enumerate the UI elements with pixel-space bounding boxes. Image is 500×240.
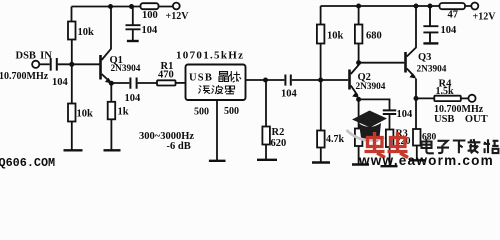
ground (under C2) bbox=[127, 40, 139, 42]
resistor 680 (Q2 collector) bbox=[358, 6, 360, 25]
wire R4 to output bbox=[461, 97, 469, 99]
ground (under R2) bbox=[257, 159, 277, 161]
svg-text:Q606.COM: Q606.COM bbox=[0, 156, 55, 170]
wire to ground bbox=[416, 146, 418, 160]
svg-text:470: 470 bbox=[158, 69, 174, 80]
ground (under 4.7k) bbox=[312, 161, 330, 163]
wire cap to R3 bbox=[389, 115, 391, 130]
svg-text:DSB IN: DSB IN bbox=[16, 51, 53, 62]
capacitor 104 (right rail bypass) bbox=[423, 6, 438, 42]
transistor Q1 2N3904 bbox=[99, 7, 112, 84]
wire to ground bbox=[110, 119, 112, 150]
wire input bbox=[39, 63, 49, 65]
resistor R4 1.5k bbox=[434, 96, 461, 101]
wire left +12V rail bbox=[72, 6, 173, 8]
transistor Q2 2N3904 bbox=[348, 63, 359, 98]
watermark 电子下载站 bbox=[422, 139, 499, 154]
USB crystal filter box bbox=[186, 65, 246, 101]
svg-text:104: 104 bbox=[142, 25, 159, 36]
svg-text:+12V: +12V bbox=[473, 12, 497, 23]
svg-text:+12V: +12V bbox=[166, 11, 190, 22]
svg-text:1.5k: 1.5k bbox=[436, 86, 455, 97]
svg-text:10k: 10k bbox=[327, 31, 344, 42]
ground (under 1k) bbox=[104, 149, 121, 151]
svg-text:100: 100 bbox=[142, 10, 158, 21]
resistor 10k (Q2 upper bias) bbox=[317, 25, 325, 44]
node Q2 emitter bbox=[356, 97, 361, 102]
node rail-Q3 collector bbox=[414, 4, 419, 9]
terminal +12V left bbox=[173, 3, 180, 10]
svg-text:2N3904: 2N3904 bbox=[417, 64, 447, 74]
node rail-680 bbox=[356, 4, 361, 9]
wire to cap bbox=[266, 79, 285, 81]
svg-text:R2: R2 bbox=[272, 127, 285, 138]
wire emitter AC branch bbox=[359, 99, 390, 109]
wire filter output bbox=[246, 79, 266, 81]
transistor Q3 2N3904 bbox=[404, 6, 416, 79]
wire to ground bbox=[358, 146, 360, 164]
wire R1 to filter bbox=[176, 82, 186, 84]
wire base node down bbox=[71, 64, 73, 103]
resistor R1 470 bbox=[157, 80, 176, 85]
svg-text:500: 500 bbox=[194, 107, 209, 118]
svg-text:USB OUT: USB OUT bbox=[434, 114, 488, 125]
node rail-C2 bbox=[129, 4, 134, 9]
svg-text:www.eaworm.com: www.eaworm.com bbox=[358, 153, 494, 168]
wire right +12V rail bbox=[321, 5, 472, 7]
resistor 1k (Q1 emitter) bbox=[108, 102, 116, 120]
wire cap to R1 bbox=[138, 82, 157, 84]
svg-text:10k: 10k bbox=[78, 27, 95, 38]
resistor 10k (Q1 upper bias) bbox=[68, 22, 76, 40]
resistor 560 (Q2 emitter) bbox=[355, 129, 363, 147]
wire to ground bbox=[71, 122, 73, 150]
svg-text:4.7k: 4.7k bbox=[326, 134, 345, 145]
ground (under 10k) bbox=[64, 149, 83, 151]
node rail-C7 bbox=[428, 4, 433, 9]
wire filter ground lead bbox=[216, 100, 218, 160]
svg-text:104: 104 bbox=[281, 89, 298, 100]
glyph 滤波器 bbox=[199, 85, 235, 94]
svg-text:10701.5kHz: 10701.5kHz bbox=[176, 50, 244, 62]
wire 10k to base node bbox=[320, 44, 322, 81]
watermark graduation cap logo bbox=[347, 111, 388, 141]
wire 10k top stem bbox=[71, 7, 73, 22]
resistor 47 (right supply) bbox=[440, 3, 466, 9]
wire emitter to R4 bbox=[416, 97, 434, 99]
node Q1 emitter bbox=[109, 81, 114, 86]
capacitor 104 (filter-Q2 coupling) bbox=[285, 75, 290, 86]
svg-text:-6 dB: -6 dB bbox=[167, 141, 191, 152]
watermark red 虫 2 bbox=[388, 132, 409, 158]
wire 10k to base node bbox=[71, 40, 73, 65]
wire cap to Q2 base node bbox=[292, 79, 348, 81]
resistor 100 (left supply) bbox=[141, 3, 159, 9]
svg-text:620: 620 bbox=[271, 138, 287, 149]
wire emitter to coupling cap bbox=[111, 82, 129, 84]
node Q1 base bbox=[69, 62, 74, 67]
terminal +12V right bbox=[471, 3, 478, 10]
svg-text:Q3: Q3 bbox=[418, 52, 431, 63]
node Q2 base bbox=[318, 78, 323, 83]
svg-text:2N3904: 2N3904 bbox=[356, 82, 386, 92]
svg-text:104: 104 bbox=[52, 77, 69, 88]
wire emitter down bbox=[358, 99, 360, 128]
svg-text:10k: 10k bbox=[77, 109, 94, 120]
node Q2 collector bbox=[356, 60, 361, 65]
ground (under 560) bbox=[352, 163, 369, 165]
node rail-Q1 collector bbox=[108, 4, 113, 9]
resistor R2 620 bbox=[262, 127, 270, 145]
ground (under filter) bbox=[209, 160, 226, 162]
ground (under right cap) bbox=[423, 42, 438, 44]
wire down to R2 bbox=[265, 80, 267, 127]
ground (under R3) bbox=[381, 165, 398, 167]
watermark red 虫 1 bbox=[365, 132, 386, 158]
glyph 晶体 bbox=[219, 71, 241, 82]
wire cap to Q1 base bbox=[58, 63, 100, 65]
wire base node down to 4.7k bbox=[320, 80, 322, 131]
svg-text:104: 104 bbox=[397, 109, 414, 120]
resistor 10k (Q1 lower bias) bbox=[68, 104, 76, 122]
ground (under 680 right) bbox=[409, 159, 426, 161]
resistor R3 220 bbox=[386, 130, 394, 148]
capacitor C2 104 (left rail bypass) bbox=[126, 7, 141, 41]
svg-text:USB: USB bbox=[189, 73, 213, 84]
wire Q3 emitter down bbox=[415, 79, 417, 130]
wire to ground bbox=[389, 147, 391, 166]
resistor 680 (Q3 emitter) bbox=[413, 129, 421, 146]
svg-text:2N3904: 2N3904 bbox=[111, 64, 141, 74]
wire to ground bbox=[265, 145, 267, 160]
node Q3 emitter bbox=[414, 96, 419, 101]
wire emitter down bbox=[110, 83, 112, 102]
wire right rail start down through 10k bbox=[320, 6, 322, 25]
resistor 4.7k (Q2 lower bias) bbox=[317, 131, 325, 148]
svg-text:680: 680 bbox=[366, 31, 382, 42]
wire Q2 collector to Q3 base bbox=[359, 62, 405, 64]
capacitor 104 (Q2 emitter AC) bbox=[383, 110, 396, 114]
wire to ground bbox=[320, 148, 322, 162]
svg-text:104: 104 bbox=[125, 93, 142, 104]
svg-text:47: 47 bbox=[448, 10, 459, 21]
wire 680 to Q2 collector node bbox=[358, 44, 360, 63]
capacitor 104 input coupling bbox=[51, 58, 57, 71]
terminal DSB IN bbox=[32, 61, 39, 68]
svg-text:1k: 1k bbox=[118, 107, 129, 118]
svg-text:104: 104 bbox=[441, 25, 458, 36]
svg-text:500: 500 bbox=[224, 106, 239, 117]
capacitor 104 (Q1 output coupling) bbox=[130, 78, 136, 89]
terminal USB OUT bbox=[468, 95, 475, 102]
node filter out bbox=[263, 78, 268, 83]
svg-text:10.700MHz: 10.700MHz bbox=[0, 71, 49, 82]
